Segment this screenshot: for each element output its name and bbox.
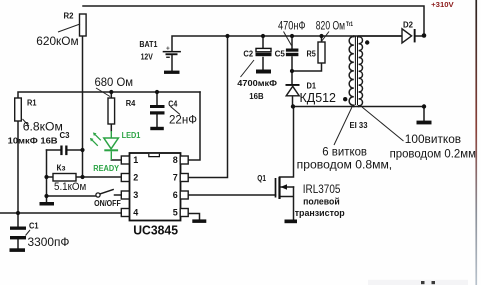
svg-text:полевой: полевой: [303, 196, 340, 206]
svg-text:D2: D2: [403, 21, 414, 30]
bottom cropped watermark marks: [368, 280, 468, 285]
wire D2 cathode to output node: [416, 35, 423, 37]
diode D2: [402, 21, 416, 44]
wire C3 left lead: [47, 149, 61, 151]
wire bottom rail to pin 4: [0, 212, 122, 214]
wire R3 right lead: [76, 176, 83, 178]
ground below C2: [256, 70, 271, 74]
svg-text:820 Ом: 820 Ом: [316, 18, 345, 32]
wire pin 7 to +12V rail: [188, 36, 228, 178]
ground below BAT1: [164, 71, 180, 74]
resistor R5: [307, 18, 346, 63]
U1 pin 8 VREF: [173, 155, 188, 165]
svg-text:LED1: LED1: [122, 131, 141, 140]
U1 pin 1 COMP: [121, 155, 138, 165]
U1 pin 4 RT/CT: [121, 208, 138, 218]
svg-text:6.8кОм: 6.8кОм: [23, 120, 63, 134]
junction node FB / C3: [80, 148, 84, 152]
svg-text:6 витков: 6 витков: [322, 144, 367, 158]
svg-text:4700мкФ: 4700мкФ: [237, 79, 277, 88]
U1 pin 5 GND: [173, 208, 188, 218]
svg-text:BAT1: BAT1: [139, 40, 157, 49]
capacitor C5: [275, 18, 306, 58]
wire switch to pin 3: [115, 194, 122, 196]
svg-text:ON/OFF: ON/OFF: [94, 199, 121, 208]
ground below R3: [40, 202, 55, 206]
svg-text:R2: R2: [64, 12, 75, 21]
svg-text:5.1кОм: 5.1кОм: [54, 181, 86, 193]
svg-text:620кОм: 620кОм: [36, 34, 78, 48]
ground at pin 5: [192, 219, 206, 223]
svg-text:3300пФ: 3300пФ: [28, 235, 70, 249]
svg-text:C4: C4: [168, 99, 177, 108]
diode D1 КД512: [286, 81, 337, 105]
junction VCC rail / pin7 column: [225, 34, 229, 38]
wire C5 lead down through snubber node to D1 cathode: [291, 36, 293, 84]
svg-text:КД512: КД512: [300, 91, 337, 105]
wire drain rail to secondary ground: [293, 107, 424, 121]
ground below C4: [150, 127, 164, 130]
U1 pin 2 VFB: [121, 173, 138, 183]
wire ground column x46: [46, 150, 48, 202]
svg-text:3: 3: [133, 190, 138, 200]
wire +12V rail from BAT1 to D2 anode: [172, 36, 402, 51]
resistor R2: [36, 12, 86, 49]
wire R3 left lead: [47, 176, 54, 178]
wire node to pin 2: [83, 176, 122, 178]
wire LED cathode to pin 1: [111, 159, 121, 161]
ground below secondary: [417, 121, 432, 125]
svg-text:22нФ: 22нФ: [169, 113, 197, 127]
capacitor C1: [10, 222, 70, 250]
svg-text:6: 6: [173, 190, 178, 200]
wire pin 5 to ground: [188, 214, 200, 220]
wire R2 column down to feedback node: [82, 36, 84, 177]
svg-text:470нФ: 470нФ: [278, 18, 306, 32]
wire VREF down to pin 8: [188, 92, 200, 160]
resistor R1: [15, 98, 63, 134]
wire BAT1 negative lead: [171, 55, 173, 70]
U1 pin 3 ISENSE: [121, 190, 138, 200]
leader to 6 витков label: [334, 107, 352, 145]
svg-text:C1: C1: [29, 222, 39, 231]
svg-text:READY: READY: [93, 164, 119, 173]
junction drain node / D1 / transformer: [291, 104, 295, 108]
svg-text:D1: D1: [307, 81, 317, 90]
junction VREF rail / C4: [155, 90, 159, 94]
svg-text:16В: 16В: [249, 92, 264, 101]
junction secondary return / ground: [422, 104, 426, 108]
wire Q1 drain vertical: [280, 107, 294, 178]
svg-text:2: 2: [133, 173, 138, 183]
leader to 100витков label: [362, 107, 404, 141]
wire C2 leads: [262, 36, 264, 70]
svg-text:C2: C2: [243, 49, 253, 58]
svg-text:680 Ом: 680 Ом: [95, 75, 134, 89]
svg-text:+310V: +310V: [431, 0, 454, 9]
label 100витков: [390, 132, 476, 161]
svg-text:C5: C5: [275, 49, 286, 58]
junction ground column / switch wire: [44, 194, 48, 198]
junction VCC rail / R5: [319, 34, 323, 38]
svg-text:транзистор: транзистор: [295, 208, 345, 218]
svg-text:7: 7: [173, 173, 178, 183]
ground at Q1 source: [285, 220, 298, 224]
svg-text:IRL3705: IRL3705: [303, 182, 341, 196]
svg-text:R1: R1: [27, 99, 37, 108]
svg-text:C3: C3: [60, 131, 71, 140]
transformer Tr1 EI33: [343, 36, 402, 130]
LED1: [90, 131, 141, 173]
wire top feedback rail from R2 to +310V node: [83, 6, 424, 36]
svg-text:5: 5: [173, 208, 178, 218]
resistor R3: [53, 164, 86, 194]
junction timing rail / C1: [16, 211, 20, 215]
wire C3 right lead: [68, 149, 83, 151]
label 6 витков: [297, 144, 393, 171]
switch ON/OFF: [94, 189, 121, 208]
wire C1 leads: [17, 213, 19, 248]
ground below C1: [10, 248, 26, 252]
U1 pin 7 VCC: [173, 173, 188, 183]
junction node FB / R3 / pin2: [80, 175, 84, 179]
junction ground column / R3: [44, 175, 48, 179]
junction snubber node C5 R5 D1: [290, 69, 294, 73]
svg-text:100витков: 100витков: [405, 132, 461, 146]
wire VREF rail y92 from R1 top to corner: [18, 92, 200, 98]
svg-text:R4: R4: [126, 99, 136, 108]
svg-text:Tr1: Tr1: [346, 21, 353, 28]
resistor R4: [95, 75, 136, 124]
junction VCC rail / C2: [261, 34, 265, 38]
wire pin 6 to Q1 gate: [188, 194, 276, 196]
svg-text:8: 8: [173, 155, 178, 165]
svg-text:R5: R5: [307, 49, 317, 58]
capacitor C2 electrolytic: [237, 48, 277, 101]
wire to ON/OFF switch: [47, 195, 97, 197]
svg-text:Q1: Q1: [257, 174, 266, 183]
svg-text:проводом 0.8мм,: проводом 0.8мм,: [297, 157, 393, 171]
svg-text:4: 4: [133, 208, 138, 218]
op-amp controller U1 UC3845 body: [130, 153, 181, 221]
svg-text:1: 1: [133, 155, 138, 165]
capacitor C3: [60, 131, 71, 155]
right edge scan band: [0, 0, 1, 1]
wire R4 leads: [110, 92, 112, 131]
U1 pin 6 OUT: [173, 190, 188, 200]
wire R1 column to bottom rail: [17, 121, 19, 213]
junction VREF rail / R4: [109, 90, 113, 94]
svg-text:Кз: Кз: [57, 164, 66, 173]
transistor Q1 IRL3705: [257, 174, 345, 218]
svg-text:UC3845: UC3845: [133, 223, 178, 238]
svg-text:12V: 12V: [141, 53, 154, 62]
junction VCC rail / C5: [290, 34, 294, 38]
wire C4 leads: [156, 92, 158, 127]
svg-text:10мкФ 16В: 10мкФ 16В: [8, 137, 58, 146]
svg-text:проводом 0.2мм: проводом 0.2мм: [390, 147, 476, 161]
battery BAT1: [139, 40, 181, 62]
svg-text:EI 33: EI 33: [350, 121, 369, 130]
wire R5 leads and bottom link: [292, 36, 322, 71]
wire D1 anode to drain node: [292, 96, 294, 107]
capacitor C4: [150, 99, 197, 126]
node +310V output: [422, 33, 427, 38]
wire Q1 source to ground: [280, 187, 294, 220]
